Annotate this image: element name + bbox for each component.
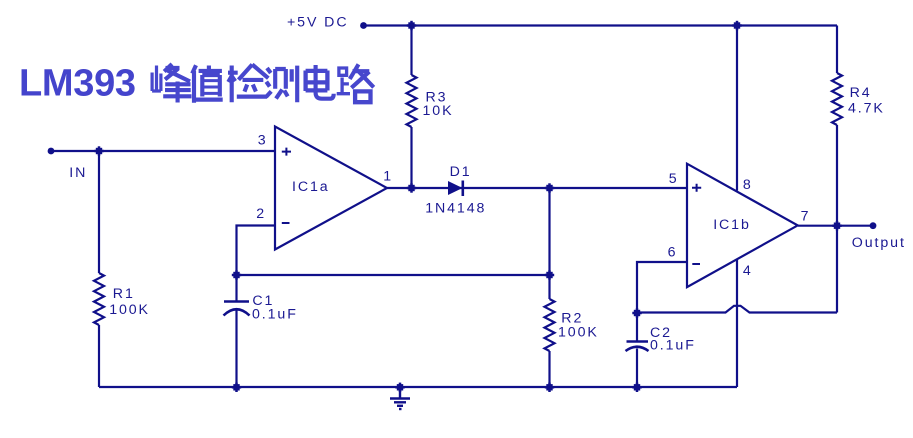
svg-text:10K: 10K: [423, 103, 454, 119]
svg-text:0.1uF: 0.1uF: [252, 306, 298, 322]
node junction feedback/R2: [545, 270, 554, 279]
node junction +5V/pin8: [732, 21, 741, 30]
svg-text:IN: IN: [69, 165, 87, 181]
wire ground bottom rail: [99, 386, 737, 388]
svg-text:+5V DC: +5V DC: [287, 15, 348, 31]
wire R3 top lead from +5V rail: [410, 26, 412, 76]
wire IC1a pin2 to C1 node: [237, 226, 276, 276]
svg-text:LM393: LM393: [19, 63, 136, 105]
wire R1 bottom lead to ground rail: [98, 325, 100, 387]
wire C1 top lead: [235, 275, 237, 302]
svg-text:4: 4: [743, 263, 753, 279]
wire R4 bottom lead down through output node to feedback corner: [836, 125, 838, 313]
wire C2 bottom lead to ground rail: [636, 349, 638, 388]
ground symbol: [390, 387, 410, 409]
svg-text:1: 1: [383, 169, 393, 185]
svg-text:R4: R4: [850, 85, 872, 101]
title text CJK 峰值检测电路 hand drawn: [152, 64, 374, 103]
wire IC1b pin8 to +5V rail: [736, 26, 738, 191]
CJK char 检: [228, 65, 268, 103]
svg-text:100K: 100K: [109, 302, 150, 318]
terminal dot Output: [870, 222, 877, 229]
svg-text:R1: R1: [113, 286, 135, 302]
wire R1 top lead from IN node: [98, 151, 100, 273]
capacitor C1: [224, 300, 249, 303]
wire IC1b pin6 lead: [637, 262, 687, 313]
wire +5V top rail: [363, 24, 837, 26]
svg-text:D1: D1: [450, 164, 472, 180]
op-amp U1 IC1a triangle: [275, 127, 387, 250]
CJK char 峰: [152, 64, 191, 103]
wire R2 top lead from diode net: [548, 188, 550, 299]
diode D1: [448, 181, 463, 195]
terminal dot +5V: [360, 22, 367, 29]
svg-text:2: 2: [256, 206, 266, 222]
resistor R4: [832, 73, 842, 125]
wire R4 top lead from +5V rail: [836, 26, 838, 74]
wire IC1b pin4 to ground rail: [736, 260, 738, 388]
node junction C2/pin6/feedback: [632, 308, 641, 317]
svg-text:4.7K: 4.7K: [848, 100, 885, 116]
node junction C1/pin2: [232, 270, 241, 279]
wire feedback from output column to C2 node with hop over pin4 wire: [637, 306, 837, 313]
node junction rail/ground: [395, 383, 404, 392]
resistor R3: [407, 75, 417, 127]
svg-text:IC1a: IC1a: [292, 179, 330, 195]
op-amp U2 IC1b triangle: [687, 164, 798, 287]
CJK char 路: [337, 64, 374, 102]
resistor R2: [545, 299, 555, 351]
polarity minus sign IC1b: [692, 263, 700, 265]
wire IN input line to IC1a pin3: [51, 150, 275, 152]
svg-text:6: 6: [668, 244, 678, 260]
node junction +5V/R3: [407, 21, 416, 30]
svg-text:IC1b: IC1b: [713, 217, 751, 233]
svg-text:8: 8: [743, 177, 753, 193]
node junction output/R4: [832, 221, 841, 230]
wire R2 bottom lead to ground rail: [548, 351, 550, 387]
svg-text:5: 5: [669, 171, 679, 187]
wire C1 bottom lead to ground rail: [235, 309, 237, 388]
CJK char 电: [306, 65, 334, 99]
node junction rail/C1: [232, 383, 241, 392]
node junction rail/C2: [632, 383, 641, 392]
wire IC1a output through D1 to IC1b pin5: [387, 187, 688, 189]
node junction diode net/R3: [407, 183, 416, 192]
terminal dot IN: [48, 148, 55, 155]
wire C2 top lead: [636, 313, 638, 342]
polarity plus sign IC1a: [282, 148, 291, 156]
CJK char 测: [266, 66, 297, 103]
node junction rail/R2: [545, 383, 554, 392]
wire IC1b output to Output terminal: [798, 225, 873, 227]
node junction diode net/R2: [545, 183, 554, 192]
wire R3 bottom lead to diode net: [410, 127, 412, 188]
polarity plus sign IC1b: [692, 184, 701, 192]
svg-text:7: 7: [801, 208, 811, 224]
wire C1 node to R2 column: [237, 274, 550, 276]
svg-text:3: 3: [258, 133, 268, 149]
svg-text:1N4148: 1N4148: [425, 200, 486, 216]
svg-text:Output: Output: [852, 235, 906, 251]
CJK char 值: [192, 65, 223, 103]
node junction IN/R1: [94, 146, 103, 155]
capacitor C2: [627, 340, 649, 343]
polarity minus sign IC1a: [282, 222, 290, 224]
svg-text:100K: 100K: [558, 324, 599, 340]
svg-text:0.1uF: 0.1uF: [650, 338, 696, 354]
resistor R1: [94, 273, 104, 325]
